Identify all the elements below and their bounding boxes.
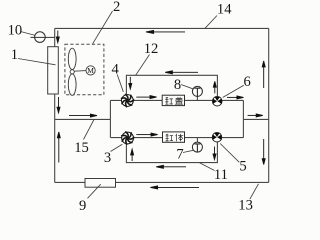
arrow up right edge bbox=[262, 61, 265, 88]
leader 2 bbox=[93, 11, 113, 44]
fan hub bbox=[70, 70, 74, 74]
leader 10 bbox=[21, 32, 36, 36]
arrow down above radiator bbox=[56, 31, 59, 43]
reference labels bbox=[8, 0, 253, 214]
arrow left on line 12 bbox=[165, 71, 198, 74]
arrow down right edge bbox=[262, 139, 265, 165]
wire line 12 bbox=[126, 75, 217, 96]
arrow top line left bbox=[146, 30, 185, 33]
cylinder block box (gang ti) bbox=[163, 132, 185, 142]
arrow left on line 11 bbox=[156, 165, 186, 168]
svg-text:2: 2 bbox=[113, 0, 120, 15]
svg-text:10: 10 bbox=[8, 23, 23, 39]
svg-text:3: 3 bbox=[104, 150, 111, 166]
leader 6 bbox=[223, 85, 244, 97]
char gang bbox=[165, 97, 173, 104]
svg-text:6: 6 bbox=[243, 74, 250, 90]
wire outer bottom line 13 bbox=[55, 181, 269, 183]
flow arrows bbox=[56, 30, 265, 188]
valve 5 (three-way, bottom port) bbox=[212, 132, 222, 142]
wire top branch bbox=[110, 99, 243, 101]
arrow right after valve6 bbox=[227, 96, 244, 99]
svg-text:8: 8 bbox=[174, 77, 181, 93]
valve 6 (three-way, top port) bbox=[212, 96, 222, 106]
leader 12 bbox=[136, 55, 150, 76]
arrow down above pump4 bbox=[129, 77, 132, 89]
heater 9 bbox=[85, 179, 116, 188]
svg-text:12: 12 bbox=[144, 41, 159, 57]
svg-text:4: 4 bbox=[112, 61, 120, 77]
pump 3 bbox=[122, 132, 134, 144]
wire junction outlet bbox=[244, 118, 269, 120]
wire line 15 bbox=[55, 118, 111, 120]
arrow right on line 15 bbox=[69, 114, 97, 117]
svg-text:14: 14 bbox=[217, 2, 232, 18]
leader lines bbox=[18, 11, 259, 199]
wire left pipe lower (radiator to bottom) bbox=[54, 94, 56, 182]
char ti bbox=[176, 134, 184, 141]
leader 8 bbox=[181, 85, 193, 89]
wire bottom branch bbox=[111, 137, 244, 139]
arrow down below radiator bbox=[57, 97, 60, 113]
arrow up on left pipe low bbox=[57, 132, 60, 163]
svg-text:11: 11 bbox=[214, 167, 228, 183]
svg-text:9: 9 bbox=[79, 198, 86, 214]
wire sensor 10 connector bbox=[31, 36, 55, 38]
leader 15 bbox=[84, 120, 95, 140]
fan motor shaft bbox=[74, 70, 86, 73]
leader 13 bbox=[250, 184, 259, 199]
wire left pipe upper (into radiator) bbox=[54, 28, 56, 47]
arrow right pump4 outlet bbox=[136, 96, 156, 99]
leader 7 bbox=[183, 150, 194, 152]
arrow down beside valve5 leg bbox=[213, 147, 216, 160]
leader 3 bbox=[111, 144, 123, 151]
leader 11 bbox=[200, 163, 215, 171]
leader 5 bbox=[220, 144, 239, 163]
leader 9 bbox=[88, 184, 101, 198]
leader 1 bbox=[18, 59, 56, 65]
pump 4 bbox=[122, 95, 134, 107]
fan shroud dashed box 2 bbox=[65, 44, 104, 95]
leader 4 bbox=[117, 75, 123, 92]
arrow up below pump3 bbox=[131, 149, 134, 161]
fan motor M bbox=[86, 66, 95, 75]
wire outer top line 14 bbox=[55, 27, 269, 29]
svg-text:7: 7 bbox=[176, 147, 183, 163]
svg-text:13: 13 bbox=[238, 198, 253, 214]
char gang bbox=[166, 134, 174, 141]
svg-text:5: 5 bbox=[239, 158, 246, 174]
fan blade bottom bbox=[68, 74, 76, 95]
arrow right junction outlet bbox=[248, 114, 263, 117]
svg-text:15: 15 bbox=[74, 140, 89, 156]
cylinder head box (gang gai) bbox=[162, 95, 184, 105]
arrow left on bottom line bbox=[150, 186, 199, 189]
temp sensor 7 bbox=[192, 142, 202, 152]
radiator R1 bbox=[48, 47, 59, 94]
fan blade top bbox=[68, 48, 76, 69]
leader 14 bbox=[205, 16, 217, 29]
wire manifold vertical bbox=[109, 100, 111, 137]
wire sensor 7 stem bbox=[196, 138, 198, 142]
wire line 11 bbox=[126, 142, 217, 163]
arrow up beside valve6 leg bbox=[213, 81, 216, 93]
wire right merge vertical bbox=[242, 100, 244, 137]
svg-text:M: M bbox=[87, 66, 94, 75]
wire sensor 8 stem bbox=[196, 96, 198, 100]
wire outer right line bbox=[268, 28, 270, 182]
sensor 10 circle bbox=[35, 32, 46, 43]
arrow right pump3 outlet bbox=[136, 133, 157, 136]
temp sensor 8 bbox=[192, 86, 202, 96]
pipe network bbox=[31, 28, 269, 182]
svg-text:1: 1 bbox=[11, 47, 18, 63]
char gai bbox=[175, 97, 183, 104]
